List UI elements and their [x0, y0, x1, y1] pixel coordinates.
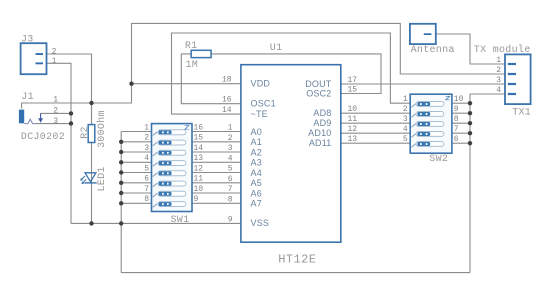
svg-text:12: 12	[348, 125, 358, 134]
svg-text:A0: A0	[251, 127, 262, 137]
junction SW1 bus on GND rail	[119, 221, 123, 225]
wire SW2 pin7 to common bus	[452, 132, 470, 134]
switch SW1-4	[153, 161, 186, 167]
DIP switch SW2	[410, 94, 452, 165]
svg-text:14: 14	[222, 106, 232, 115]
wire U1 AD8 pin 10 to SW2 pin2	[341, 112, 410, 114]
wire U1 ~TE pin 14 loop to SW2 pin1	[172, 33, 411, 114]
wire SW1 pin2 to common bus	[121, 141, 151, 143]
wire SW1 pin5 to common bus	[121, 172, 151, 174]
junction SW2 pin6 on bus	[468, 141, 472, 145]
junction SW2 pin7 on bus	[468, 131, 472, 135]
switch SW2-1	[412, 102, 444, 108]
svg-text:SW2: SW2	[429, 154, 448, 165]
wire SW1 pin10 to U1 A6 pin 7	[192, 192, 241, 194]
switch SW1-8	[153, 202, 186, 208]
svg-text:SW1: SW1	[171, 215, 190, 226]
svg-text:7: 7	[144, 185, 149, 194]
svg-text:9: 9	[194, 195, 199, 204]
wire SW2 common bus down to bottom rail	[469, 94, 471, 273]
wire SW2 pin9 to common bus	[452, 112, 470, 114]
svg-text:1M: 1M	[186, 60, 199, 71]
junction VCC node at R2 top	[89, 101, 93, 105]
wire U1 AD9 pin 11 to SW2 pin3	[341, 122, 410, 124]
wire SW1 pin8 to common bus	[121, 202, 151, 204]
svg-text:VDD: VDD	[251, 79, 271, 89]
wire VCC branch to U1 VDD pin 18	[132, 83, 241, 85]
svg-text:A6: A6	[251, 188, 262, 198]
wire R1 left terminal to U1 OSC1 pin 16	[181, 54, 241, 104]
svg-text:3: 3	[53, 117, 58, 126]
wire J1 pin2 to GND vertical	[41, 112, 72, 114]
wire SW1 pin7 to common bus	[121, 192, 151, 194]
svg-text:6: 6	[144, 175, 149, 184]
wire SW1 pin16 to U1 A0 pin 1	[192, 131, 241, 133]
junction SW1 pin8 on bus	[119, 201, 123, 205]
svg-text:3: 3	[403, 115, 408, 124]
svg-text:16: 16	[194, 123, 204, 132]
wire SW1 common bus down to bottom rail	[120, 132, 122, 273]
svg-text:VSS: VSS	[251, 218, 270, 228]
svg-text:A5: A5	[251, 178, 262, 188]
svg-text:9: 9	[228, 215, 233, 224]
svg-text:300Ohm: 300Ohm	[96, 110, 108, 148]
junction SW2 pin10 on bus	[468, 101, 472, 105]
wire SW1 pin4 to common bus	[121, 161, 151, 163]
junction SW1 pin7 on bus	[119, 191, 123, 195]
svg-text:15: 15	[194, 134, 204, 143]
svg-text:11: 11	[194, 175, 204, 184]
svg-text:2: 2	[228, 134, 233, 143]
svg-text:1: 1	[144, 123, 149, 132]
svg-text:16: 16	[222, 96, 232, 105]
svg-text:TX1: TX1	[512, 107, 531, 118]
svg-text:TX module: TX module	[474, 44, 531, 56]
DIP switch SW1	[152, 124, 193, 226]
svg-text:6: 6	[228, 175, 233, 184]
switch SW1-5	[153, 171, 186, 177]
svg-text:6: 6	[454, 135, 459, 144]
svg-text:13: 13	[348, 135, 358, 144]
svg-text:R2: R2	[80, 126, 91, 139]
svg-text:9: 9	[454, 105, 459, 114]
junction SW1 pin3 on bus	[119, 150, 123, 154]
op IC U1 HT12E encoder	[241, 43, 341, 266]
svg-text:AD10: AD10	[308, 128, 331, 138]
svg-text:13: 13	[194, 154, 204, 163]
svg-text:A1: A1	[251, 137, 262, 147]
resistor R1	[185, 41, 211, 58]
svg-text:12: 12	[194, 164, 204, 173]
SW1 orientation mark	[185, 126, 189, 130]
switch SW1-3	[153, 150, 186, 156]
wire bottom GND rail	[121, 272, 470, 274]
wire SW1 pin1 to common bus	[121, 131, 151, 133]
svg-text:1: 1	[496, 56, 501, 65]
wire SW2 pin8 to common bus	[452, 122, 470, 124]
svg-text:5: 5	[228, 165, 233, 174]
svg-text:4: 4	[403, 125, 408, 134]
SW2 orientation mark	[446, 96, 450, 100]
svg-text:2: 2	[144, 134, 149, 143]
svg-text:3: 3	[496, 76, 501, 85]
junction J1 pin3 on GND line	[69, 121, 73, 125]
svg-text:AD9: AD9	[313, 118, 331, 128]
svg-text:8: 8	[454, 115, 459, 124]
svg-text:J1: J1	[21, 92, 34, 103]
svg-text:A3: A3	[251, 158, 262, 168]
svg-text:LED1: LED1	[97, 166, 108, 191]
wire SW2 pin6 to common bus	[452, 142, 470, 144]
junction LED1 cathode on GND rail	[89, 221, 93, 225]
switch SW1-2	[153, 140, 186, 146]
svg-text:5: 5	[144, 164, 149, 173]
svg-text:7: 7	[228, 185, 233, 194]
wire SW2 bus to TX1 pin4	[470, 93, 508, 95]
junction VCC branch to VDD	[129, 82, 133, 86]
svg-text:DCJ0202: DCJ0202	[21, 132, 65, 143]
svg-text:4: 4	[228, 154, 233, 163]
svg-text:U1: U1	[270, 43, 283, 54]
svg-text:8: 8	[144, 195, 149, 204]
svg-text:3: 3	[144, 144, 149, 153]
svg-text:1: 1	[53, 95, 58, 104]
antenna	[410, 24, 455, 56]
svg-text:R1: R1	[185, 41, 198, 52]
wire U1 AD10 pin 12 to SW2 pin4	[341, 132, 410, 134]
wire SW1 pin9 to U1 A7 pin 8	[192, 202, 241, 204]
svg-text:3: 3	[228, 144, 233, 153]
switch SW2-2	[412, 112, 444, 118]
svg-text:AD8: AD8	[313, 108, 331, 118]
switch SW1-1	[153, 130, 186, 136]
svg-text:Antenna: Antenna	[411, 45, 455, 56]
svg-text:HT12E: HT12E	[278, 253, 316, 267]
svg-text:OSC1: OSC1	[251, 99, 276, 109]
svg-text:18: 18	[222, 76, 232, 85]
switch SW2-5	[412, 142, 444, 148]
svg-text:2: 2	[52, 47, 57, 56]
svg-text:1: 1	[403, 95, 408, 104]
junction SW1 pin2 on bus	[119, 140, 123, 144]
wire SW2 pin10 to common bus	[452, 102, 470, 104]
svg-text:10: 10	[194, 185, 204, 194]
TX module TX1	[474, 44, 531, 118]
junction SW1 pin6 on bus	[119, 181, 123, 185]
wire antenna to TX1 pin1	[436, 34, 508, 64]
junction J1 pin2 on GND line	[69, 111, 73, 115]
svg-text:2: 2	[403, 105, 408, 114]
svg-text:5: 5	[403, 135, 408, 144]
svg-text:DOUT: DOUT	[305, 79, 332, 89]
wire J1 pin1 VCC loop over top to TX1 pin2	[22, 23, 508, 108]
svg-text:A2: A2	[251, 147, 262, 157]
wire SW1 pin13 to U1 A3 pin 4	[192, 161, 241, 163]
wire J3 pin1 down to GND rail	[47, 63, 72, 223]
svg-text:14: 14	[194, 144, 204, 153]
wire J1 pin3 to GND vertical	[36, 123, 71, 125]
switch SW2-3	[412, 122, 444, 128]
svg-text:10: 10	[454, 95, 464, 104]
switch SW2-4	[412, 132, 444, 138]
svg-text:4: 4	[144, 154, 149, 163]
wire R2 bottom through LED1 to GND rail	[91, 143, 93, 224]
svg-text:A4: A4	[251, 168, 262, 178]
svg-text:~TE: ~TE	[251, 109, 268, 119]
svg-text:4: 4	[496, 86, 501, 95]
wire SW1 pin12 to U1 A4 pin 5	[192, 172, 241, 174]
wire GND rail to U1 VSS pin 9	[71, 222, 241, 224]
svg-text:2: 2	[53, 107, 58, 116]
junction SW2 pin9 on bus	[468, 111, 472, 115]
svg-text:10: 10	[348, 105, 358, 114]
wire U1 DOUT pin 17 to TX1 pin3	[341, 83, 508, 85]
wire SW1 pin11 to U1 A5 pin 6	[192, 182, 241, 184]
junction SW2 pin8 on bus	[468, 121, 472, 125]
junction SW1 pin5 on bus	[119, 170, 123, 174]
svg-text:2: 2	[496, 66, 501, 75]
junction SW1 pin4 on bus	[119, 160, 123, 164]
svg-text:J3: J3	[21, 35, 34, 46]
switch SW1-7	[153, 191, 186, 197]
wire SW1 pin15 to U1 A1 pin 2	[192, 141, 241, 143]
LED LED1	[80, 166, 108, 191]
svg-text:17: 17	[348, 76, 358, 85]
wire SW1 pin14 to U1 A2 pin 3	[192, 151, 241, 153]
svg-text:11: 11	[348, 115, 358, 124]
svg-text:7: 7	[454, 125, 459, 134]
svg-text:15: 15	[348, 86, 358, 95]
wire SW1 pin6 to common bus	[121, 182, 151, 184]
svg-text:OSC2: OSC2	[306, 88, 331, 98]
wire R1 right terminal to U1 OSC2 pin 15	[211, 54, 381, 94]
power jack J1 DCJ0202	[19, 92, 65, 143]
connector J3	[21, 35, 47, 75]
svg-text:AD11: AD11	[309, 138, 332, 148]
wire U1 AD11 pin 13 to SW2 pin5	[341, 142, 410, 144]
resistor R2	[80, 125, 95, 143]
wire J3 pin2 to VCC vertical at R2	[47, 54, 92, 125]
switch SW1-6	[153, 181, 186, 187]
svg-text:A7: A7	[251, 199, 262, 209]
svg-text:1: 1	[228, 124, 233, 133]
svg-text:1: 1	[52, 57, 57, 66]
wire SW1 pin3 to common bus	[121, 151, 151, 153]
wire VCC node down to R2 top	[91, 103, 93, 125]
svg-text:8: 8	[228, 195, 233, 204]
